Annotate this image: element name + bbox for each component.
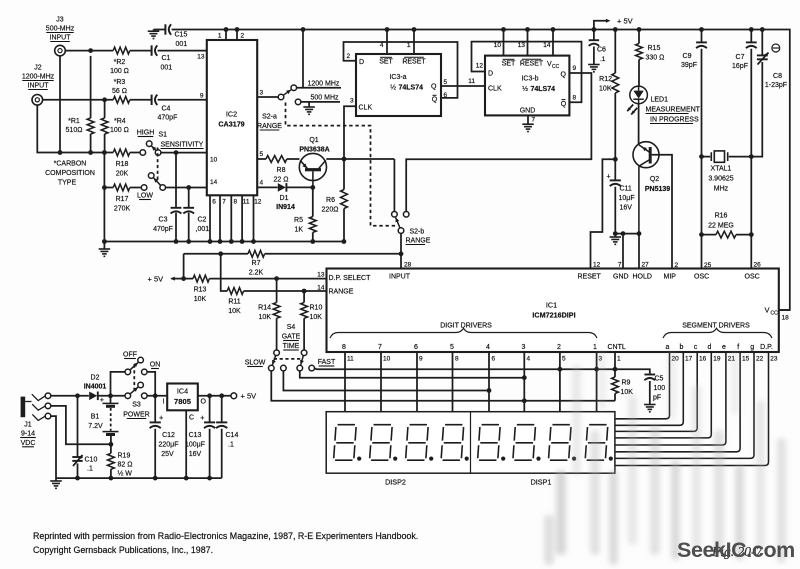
svg-text:S2-a: S2-a xyxy=(262,114,277,121)
C2 labels xyxy=(196,217,210,234)
DISP1 label xyxy=(531,478,552,487)
R18 labels xyxy=(116,161,129,178)
svg-text:7.2V: 7.2V xyxy=(88,423,103,430)
switch S4 mechanical link xyxy=(274,358,302,360)
svg-text:MHz: MHz xyxy=(714,186,729,193)
svg-text:c: c xyxy=(694,344,698,351)
capacitor C6 xyxy=(589,30,599,65)
svg-text:16pF: 16pF xyxy=(732,63,748,70)
svg-text:IN PROGRESS: IN PROGRESS xyxy=(650,117,699,124)
svg-text:100 Ω: 100 Ω xyxy=(110,127,129,134)
switch S4 arm right xyxy=(300,356,304,365)
svg-text:VDC: VDC xyxy=(21,440,36,447)
svg-text:LED1: LED1 xyxy=(651,97,669,104)
svg-text:27: 27 xyxy=(642,262,650,269)
IC3-a pin numbers top xyxy=(380,42,411,49)
R19 labels xyxy=(118,453,133,478)
switch S3 mechanical link xyxy=(133,365,135,391)
connector J3 xyxy=(55,45,66,56)
capacitor C11 (10uF) xyxy=(607,159,621,233)
svg-text:11: 11 xyxy=(468,78,475,85)
S2-a labels xyxy=(257,114,282,131)
XTAL1 labels xyxy=(708,166,733,193)
IC2 labels xyxy=(218,110,244,129)
wire J3 row to IC2 pin 13 xyxy=(65,50,207,52)
counter IC1 ICM7216DIPI box xyxy=(327,269,779,353)
svg-text:C14: C14 xyxy=(226,432,239,439)
SLOW label xyxy=(245,360,266,367)
D1 labels xyxy=(276,195,295,211)
capacitor C13 (100uF) xyxy=(200,396,215,478)
svg-text:CLK: CLK xyxy=(488,86,502,93)
svg-text:13: 13 xyxy=(518,42,526,49)
LED1 labels xyxy=(646,97,701,124)
resistor R16 xyxy=(716,231,736,238)
LED1 emission arrows xyxy=(627,105,637,115)
R16 labels xyxy=(708,213,734,230)
IC2 top pin stubs xyxy=(226,30,237,41)
svg-text:*R4: *R4 xyxy=(114,118,126,125)
watermark SeekIC.com xyxy=(677,538,795,562)
terminal +5V output xyxy=(231,393,237,399)
D2 labels xyxy=(84,375,107,391)
R8 labels xyxy=(274,167,289,184)
junction C14 tap xyxy=(219,393,224,398)
svg-text:14: 14 xyxy=(210,179,218,186)
junction dots row1 xyxy=(558,367,618,372)
svg-text:,001: ,001 xyxy=(196,226,210,233)
junction S2-b/R7 row xyxy=(399,251,404,256)
wire +5V row to IC1 pin 13 xyxy=(184,278,327,280)
R9 labels xyxy=(621,380,634,397)
wire CNTL pin 1 stub xyxy=(614,352,616,369)
svg-text:MEASUREMENT: MEASUREMENT xyxy=(646,107,701,114)
IC3-a SET label xyxy=(379,57,393,65)
svg-text:C7: C7 xyxy=(736,54,745,61)
svg-text:+ 5V: + 5V xyxy=(241,392,257,401)
junction D1/R5/Q1 base xyxy=(310,185,315,190)
LED LED1 xyxy=(630,86,648,104)
svg-text:6: 6 xyxy=(212,199,216,206)
capacitor C7 xyxy=(746,30,757,269)
svg-text:B1: B1 xyxy=(91,414,100,421)
op-amp U IC2 CA3179 box xyxy=(207,40,257,195)
svg-text:INPUT: INPUT xyxy=(50,35,72,42)
wire IC3-b D-to-Qbar loop xyxy=(472,42,582,103)
capacitor C4 xyxy=(152,95,158,105)
svg-text:10: 10 xyxy=(494,42,502,49)
resistor R13 xyxy=(193,275,209,282)
svg-text:IN914: IN914 xyxy=(276,204,295,211)
R2 labels xyxy=(110,59,129,75)
wire +5V top rail xyxy=(154,30,790,311)
switch S3 arm upper xyxy=(130,362,138,370)
IC1 top inside labels xyxy=(578,274,760,281)
display digit 2 xyxy=(370,425,398,461)
wire IC3-a D-to-Qbar loop xyxy=(344,42,458,98)
wire digit driver stubs xyxy=(345,352,597,412)
svg-text:CA3179: CA3179 xyxy=(218,120,244,129)
wire RESET net to IC1 pin 12 xyxy=(591,159,616,268)
IC3-a name xyxy=(389,74,423,92)
svg-text:100: 100 xyxy=(654,385,666,392)
svg-text:GND: GND xyxy=(613,274,629,281)
svg-text:D: D xyxy=(359,59,364,66)
IC3-a RESET label xyxy=(402,57,426,65)
svg-text:CLK: CLK xyxy=(359,105,373,112)
segment drivers brace xyxy=(663,328,772,338)
svg-text:C8: C8 xyxy=(773,73,782,80)
IC3-b RESET label xyxy=(520,59,544,67)
svg-text:6: 6 xyxy=(414,344,418,351)
C13 labels xyxy=(185,432,205,458)
caption line 1 xyxy=(33,531,418,541)
junction dots supply rail xyxy=(75,476,212,481)
svg-text:22 MEG: 22 MEG xyxy=(708,223,734,230)
R10 labels xyxy=(310,305,323,322)
svg-text:14: 14 xyxy=(317,285,325,292)
connector J1 plug xyxy=(21,397,32,418)
svg-text:V: V xyxy=(765,306,770,315)
C5 labels xyxy=(653,376,665,402)
svg-text:39pF: 39pF xyxy=(681,62,697,69)
node 1200 MHz label xyxy=(308,81,340,88)
svg-text:MIP: MIP xyxy=(664,274,677,281)
wire IC3-a Q to IC3-b CLK xyxy=(441,85,485,87)
wire S4 row1 (FAST) xyxy=(314,368,649,374)
svg-text:SeekIC.com: SeekIC.com xyxy=(677,538,795,562)
svg-text:D: D xyxy=(488,71,493,78)
svg-text:+: + xyxy=(607,174,611,181)
svg-text:b: b xyxy=(680,344,684,351)
wire segment driver leads a-DP xyxy=(615,352,769,466)
svg-text:pF: pF xyxy=(653,395,661,402)
junction R10 tap xyxy=(302,289,307,294)
svg-text:*R3: *R3 xyxy=(114,79,126,86)
svg-text:8: 8 xyxy=(342,344,346,351)
C8 adjust symbol xyxy=(772,44,780,52)
IC1 Vcc label xyxy=(765,306,779,317)
junction C10 tap xyxy=(75,393,80,398)
IC3-b pin numbers top xyxy=(494,42,551,49)
svg-text:74LS74: 74LS74 xyxy=(531,86,556,93)
B1 labels xyxy=(88,414,103,431)
ground at C11 row xyxy=(610,234,622,245)
wire IC2 pin 3 to S2-a pivot xyxy=(257,96,278,98)
C1 labels xyxy=(161,55,173,72)
wire S4 row3 xyxy=(283,371,489,391)
ground at C6 xyxy=(588,65,600,72)
svg-text:8: 8 xyxy=(455,356,459,363)
switch S2-a contact 500 xyxy=(295,99,301,105)
resistor R11 xyxy=(227,288,243,295)
svg-text:XTAL1: XTAL1 xyxy=(711,166,732,173)
wire IC4 common stub xyxy=(185,410,187,478)
svg-text:6: 6 xyxy=(492,356,496,363)
junction J3/R1 xyxy=(88,48,93,53)
svg-text:DISP2: DISP2 xyxy=(385,478,406,487)
switch S3 pivots xyxy=(125,369,131,399)
R6 labels xyxy=(322,197,339,214)
wire LED1 to Q2 xyxy=(638,104,640,145)
svg-text:Q: Q xyxy=(431,84,437,91)
resistor R8 xyxy=(266,156,287,163)
display digit 4 xyxy=(441,425,469,461)
svg-text:5: 5 xyxy=(260,151,264,158)
switch S2-b arm xyxy=(396,218,400,228)
wire Q2 base to MIP pin 2 xyxy=(652,155,672,269)
svg-text:15: 15 xyxy=(742,356,750,363)
svg-text:.1: .1 xyxy=(600,56,606,63)
resistor R5 xyxy=(309,187,316,241)
svg-text:C3: C3 xyxy=(159,217,168,224)
wire 1200 MHz node xyxy=(297,87,342,89)
wire S1 pole2 to IC2 pin 14 xyxy=(165,187,206,189)
svg-text:RESET: RESET xyxy=(402,59,426,66)
svg-text:RANGE: RANGE xyxy=(257,123,282,130)
svg-text:ICM7216DIPI: ICM7216DIPI xyxy=(532,311,575,320)
resistor R19 xyxy=(108,444,115,478)
IC1 name xyxy=(532,301,575,320)
wire GND pin 7 of IC1 xyxy=(622,234,624,269)
wire IC2 pin5 row xyxy=(257,158,299,160)
junction C2 tap xyxy=(186,185,191,190)
svg-text:1-23pF: 1-23pF xyxy=(765,82,787,89)
junction R12/C11/RESET node xyxy=(613,157,618,162)
C6 labels xyxy=(597,47,606,64)
svg-text:J1: J1 xyxy=(24,422,32,429)
svg-text:R14: R14 xyxy=(258,305,271,312)
IC2 pin numbers left xyxy=(197,54,217,187)
R14 labels xyxy=(258,305,271,322)
svg-text:23: 23 xyxy=(770,356,778,363)
svg-text:RANGE: RANGE xyxy=(406,238,431,245)
svg-text:+: + xyxy=(100,395,105,404)
wire IC4 output row xyxy=(198,395,231,397)
IC3 interstage pin number 11 xyxy=(468,78,475,85)
svg-text:C13: C13 xyxy=(189,432,202,439)
svg-text:2: 2 xyxy=(557,344,561,351)
S3 labels xyxy=(123,352,160,419)
capacitor C14 xyxy=(216,396,227,478)
svg-text:CC: CC xyxy=(552,64,560,70)
wire J2 row to IC2 pin 9 xyxy=(43,99,207,101)
svg-text:2: 2 xyxy=(347,53,351,60)
wire S2-b pivot to IC1 INPUT pin 28 xyxy=(400,233,402,268)
IC2 pin numbers right xyxy=(260,90,264,187)
Q2 labels xyxy=(645,176,670,193)
wire IC2 pin4 row xyxy=(257,186,313,188)
IC3-b name xyxy=(521,76,555,94)
switch S1 mechanical link xyxy=(157,148,159,182)
svg-text:470pF: 470pF xyxy=(158,115,178,122)
svg-text:GND: GND xyxy=(520,108,536,115)
C11 labels xyxy=(619,186,635,212)
svg-text:1: 1 xyxy=(407,42,411,49)
J1 contact sleeve xyxy=(32,413,50,420)
svg-text:100 Ω: 100 Ω xyxy=(110,68,129,75)
wire R16 row xyxy=(702,234,752,236)
resistor R12 xyxy=(612,30,619,160)
IC3-a pin numbers side xyxy=(347,53,448,105)
IC3-b SET label xyxy=(502,59,516,67)
svg-text:S4: S4 xyxy=(287,324,296,331)
R12 labels xyxy=(599,76,612,93)
wire Q1 row to S2-b contact A xyxy=(393,159,395,212)
ground symbol main rail xyxy=(99,242,111,257)
C15 labels xyxy=(175,32,188,49)
svg-text:OSC: OSC xyxy=(745,274,760,281)
IC3-b D label xyxy=(488,71,493,78)
switch S4 contacts top xyxy=(274,350,307,356)
svg-text:e: e xyxy=(722,344,726,351)
IC2 pin numbers top xyxy=(218,33,245,40)
J3 labels xyxy=(46,17,75,42)
svg-text:10K: 10K xyxy=(310,314,323,321)
svg-text:PN3638A: PN3638A xyxy=(299,147,329,154)
svg-text:5: 5 xyxy=(562,356,566,363)
svg-text:R17: R17 xyxy=(116,196,129,203)
svg-text:10K: 10K xyxy=(194,296,207,303)
switch S1 contacts xyxy=(140,141,166,190)
capacitor C8 (trimmer) xyxy=(751,30,768,157)
junction dots C11 ground row xyxy=(613,231,642,236)
svg-text:7: 7 xyxy=(222,199,226,206)
svg-text:17: 17 xyxy=(685,356,693,363)
svg-text:SET: SET xyxy=(502,61,516,68)
svg-text:7: 7 xyxy=(618,262,622,269)
svg-text:3: 3 xyxy=(350,98,354,105)
svg-text:C4: C4 xyxy=(162,106,171,113)
junction CLK/Q1 row xyxy=(342,157,347,162)
svg-text:R7: R7 xyxy=(252,260,261,267)
svg-text:R13: R13 xyxy=(194,287,207,294)
svg-text:COMPOSITION: COMPOSITION xyxy=(45,170,95,177)
flip-flop IC3-a box xyxy=(356,54,441,116)
svg-text:16V: 16V xyxy=(620,205,633,212)
transistor Q2 xyxy=(633,142,659,234)
svg-text:J3: J3 xyxy=(56,17,64,24)
svg-text:R6: R6 xyxy=(326,197,335,204)
svg-text:R8: R8 xyxy=(277,167,286,174)
svg-text:C12: C12 xyxy=(162,432,175,439)
svg-text:+: + xyxy=(159,413,164,422)
Q1 labels xyxy=(299,137,329,154)
wire HOLD pin 27 xyxy=(638,234,640,269)
svg-text:R19: R19 xyxy=(118,453,131,460)
svg-text:*R2: *R2 xyxy=(114,59,126,66)
svg-text:10: 10 xyxy=(383,356,391,363)
svg-text:10K: 10K xyxy=(621,389,634,396)
switch S2-a contact 1200 xyxy=(291,85,297,91)
svg-text:D2: D2 xyxy=(91,375,100,382)
R13 labels xyxy=(194,287,207,304)
+5V arrow (top) xyxy=(594,17,633,30)
resistor R1 xyxy=(87,56,94,153)
J1 contact tip xyxy=(32,393,51,401)
svg-text:½ W: ½ W xyxy=(118,470,133,478)
IC3-b pin numbers side xyxy=(476,63,577,124)
junction battery/R19 xyxy=(109,442,114,447)
wire R7 row xyxy=(184,253,401,255)
svg-text:7805: 7805 xyxy=(174,397,192,406)
svg-text:7: 7 xyxy=(532,117,536,124)
switch S4 arm left xyxy=(272,356,276,365)
resistor R4 xyxy=(101,100,108,153)
junction dots S1 upper row xyxy=(58,150,107,155)
svg-text:13: 13 xyxy=(197,54,205,61)
svg-text:11: 11 xyxy=(347,356,354,363)
svg-text:100μF: 100μF xyxy=(185,442,205,449)
flip-flop IC3-b box xyxy=(485,56,569,116)
svg-text:22: 22 xyxy=(756,356,764,363)
IC1 segment letter labels inside xyxy=(666,344,773,351)
switch S1 arm upper xyxy=(152,146,157,151)
svg-text:D.P.: D.P. xyxy=(760,344,773,351)
svg-text:+: + xyxy=(200,413,205,422)
figure number xyxy=(711,544,763,559)
IC3-b Vcc label xyxy=(547,61,560,70)
svg-text:C6: C6 xyxy=(597,47,606,54)
svg-text:16: 16 xyxy=(699,356,707,363)
+5V arrow (mid-left) xyxy=(148,275,184,284)
svg-text:C: C xyxy=(189,415,194,422)
R5 labels xyxy=(294,217,303,234)
svg-text:25V: 25V xyxy=(161,451,174,458)
C14 labels xyxy=(226,432,239,449)
svg-text:SENSITIVITY: SENSITIVITY xyxy=(161,142,204,149)
svg-text:Q2: Q2 xyxy=(650,176,659,183)
wire ground column x=104 xyxy=(103,153,105,242)
junction IC4 input node xyxy=(153,393,158,398)
svg-text:11: 11 xyxy=(243,199,250,206)
svg-text:INPUT: INPUT xyxy=(389,274,411,281)
node 500 MHz label xyxy=(311,95,340,102)
IC1 INPUT pin xyxy=(389,262,412,281)
J1 labels xyxy=(20,422,36,447)
svg-text:R15: R15 xyxy=(648,45,661,52)
svg-text:IC1: IC1 xyxy=(546,301,557,310)
svg-text:IC2: IC2 xyxy=(226,110,237,119)
junction R17 tap xyxy=(102,185,107,190)
svg-text:TIME: TIME xyxy=(283,343,300,350)
switch S4 lower circles xyxy=(269,365,315,371)
junction J2/R4 xyxy=(102,97,107,102)
svg-text:10K: 10K xyxy=(228,308,241,315)
junction B1 tap xyxy=(108,393,113,398)
ground symbol supply xyxy=(50,478,62,488)
svg-text:.1: .1 xyxy=(228,442,234,449)
ground at C15 xyxy=(148,30,160,39)
svg-text:10K: 10K xyxy=(599,86,612,93)
svg-text:10μF: 10μF xyxy=(619,195,635,202)
svg-text:INPUT: INPUT xyxy=(28,83,50,90)
+5V output label xyxy=(241,392,257,401)
svg-text:500 MHz: 500 MHz xyxy=(311,95,340,102)
svg-text:RESET: RESET xyxy=(520,61,544,68)
svg-text:TYPE: TYPE xyxy=(58,180,77,187)
switch S2-b pivot xyxy=(398,228,404,234)
svg-text:2.2K: 2.2K xyxy=(249,270,264,277)
switch S3 contacts xyxy=(138,357,147,398)
wire S4 row4 xyxy=(271,371,615,401)
carbon composition note xyxy=(45,161,95,187)
svg-text:OFF: OFF xyxy=(123,352,137,359)
svg-text:16V: 16V xyxy=(189,451,202,458)
display digit 5 xyxy=(478,425,506,461)
svg-text:270K: 270K xyxy=(114,206,131,213)
transistor Q1 xyxy=(299,153,326,187)
